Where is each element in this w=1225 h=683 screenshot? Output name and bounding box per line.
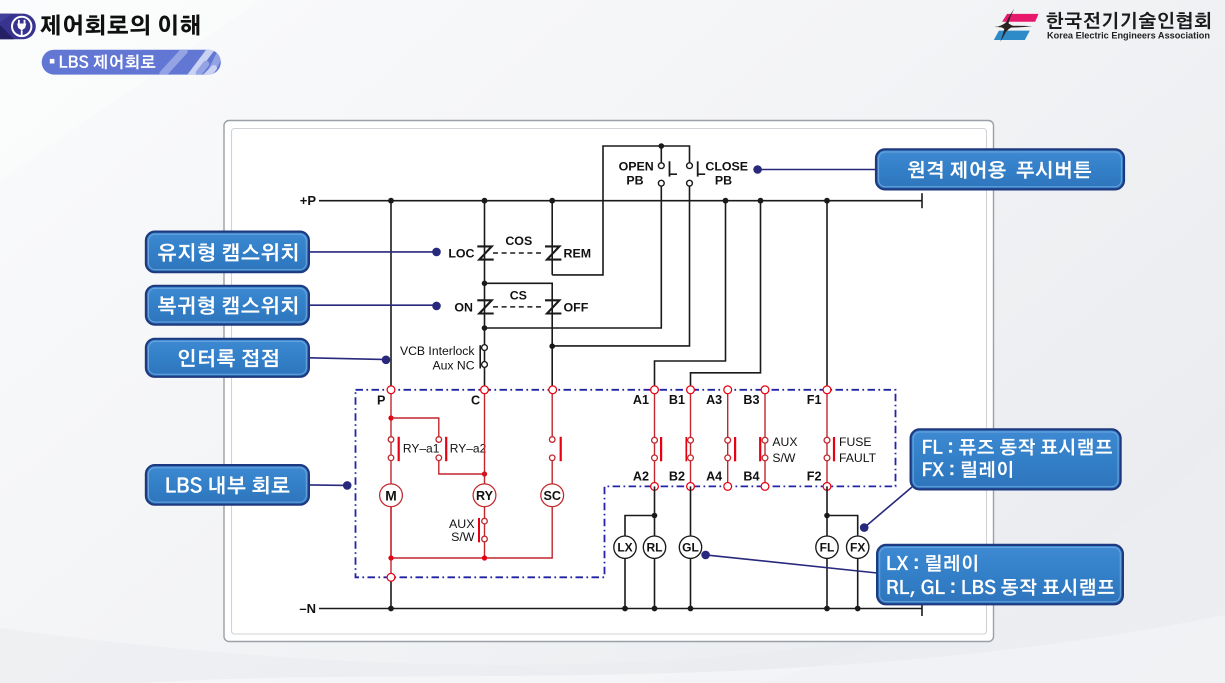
svg-text:S/W: S/W	[772, 451, 796, 465]
svg-text:+P: +P	[300, 193, 317, 208]
callout box: 원격 제어용 푸시버튼	[876, 149, 1124, 189]
wire: remote PB top bus	[552, 146, 689, 275]
junction: -N at RL	[652, 606, 658, 612]
junction: -N at FX	[855, 606, 861, 612]
svg-text:S/W: S/W	[451, 530, 475, 544]
cam switch CS ON contact	[477, 300, 493, 313]
wire: GL to -N	[690, 558, 692, 608]
wire: red bottom bus	[391, 507, 552, 558]
wire: A2 to lamps	[654, 486, 656, 535]
lamp FX	[847, 536, 869, 558]
svg-text:F1: F1	[807, 393, 822, 407]
svg-text:OFF: OFF	[564, 300, 589, 314]
plug icon	[12, 17, 31, 37]
callout line: LBS internal	[309, 484, 347, 487]
callout line: remote pushbutton	[758, 169, 876, 171]
callout box: 복귀형 캠스위치	[146, 286, 309, 325]
terminals on enclosure top edge	[387, 386, 831, 394]
svg-text:Aux NC: Aux NC	[433, 359, 475, 373]
contact B3-B4	[760, 390, 768, 487]
junction: -N at FL	[824, 606, 830, 612]
wire: SC column from +P to REM	[551, 201, 553, 275]
svg-text:FUSE: FUSE	[839, 435, 872, 449]
callout box: FL 퓨즈 FX 릴레이	[911, 429, 1121, 489]
COS link dashed	[493, 252, 544, 254]
callout node dot (FX)	[860, 523, 869, 532]
wire: FX to -N	[857, 558, 859, 608]
wire: F2 to FL	[826, 486, 828, 535]
svg-text:FAULT: FAULT	[839, 451, 877, 465]
svg-text:FL: FL	[820, 541, 835, 555]
contact VCB Interlock Aux NC	[480, 345, 487, 369]
lamp FL	[816, 536, 838, 558]
LBS enclosure dash-dot border	[356, 390, 896, 578]
callout box: LX 릴레이 RL GL 램프	[877, 545, 1123, 604]
svg-text:P: P	[377, 394, 385, 408]
junction: C column / OPEN PB	[482, 325, 488, 331]
svg-text:RL: RL	[647, 541, 663, 555]
svg-text:ON: ON	[454, 300, 473, 314]
junction: -N at LX	[622, 606, 628, 612]
callout line: momentary cam switch	[309, 304, 437, 306]
wire: CLOSE PB down to SC node	[552, 186, 689, 346]
junction: RY top	[482, 471, 487, 476]
lamp RL	[643, 536, 665, 558]
contact AUX S/W (motor limit)	[479, 518, 487, 542]
callout node dot (remote PB)	[753, 165, 762, 174]
callout line: LX RL GL	[706, 555, 878, 573]
wire: C column from +P down	[484, 201, 486, 390]
contact A1-A2	[652, 390, 662, 487]
svg-text:RY–a2: RY–a2	[450, 441, 487, 455]
callout box: 유지형 캠스위치	[146, 232, 309, 273]
pushbutton OPEN PB	[658, 161, 677, 186]
callout box: 인터록 접점	[146, 339, 309, 377]
terminals on enclosure bottom edge	[651, 483, 831, 491]
svg-text:M: M	[385, 488, 397, 503]
svg-text:SC: SC	[543, 489, 561, 503]
lamp LX	[614, 536, 636, 558]
subtitle pill: LBS 제어회로	[42, 49, 221, 86]
svg-text:Korea Electric Engineers Assoc: Korea Electric Engineers Association	[1047, 30, 1210, 40]
contact RY-a1	[388, 437, 399, 462]
wire: SC column red	[551, 390, 553, 437]
svg-text:LOC: LOC	[448, 247, 474, 261]
junction: RY-a2 branch from P column	[388, 415, 393, 420]
wire: +P rail	[319, 200, 922, 202]
wire: P column from +P to terminal P	[390, 201, 392, 390]
svg-text:REM: REM	[564, 247, 592, 261]
junction: -N at GL	[688, 606, 694, 612]
svg-text:–N: –N	[299, 601, 316, 616]
contact RY-a2	[436, 437, 446, 462]
wire: RY to AUX SW	[484, 507, 486, 558]
KEEA logo korean text	[1047, 12, 1210, 29]
svg-text:COS: COS	[505, 234, 532, 248]
junction: FX branch	[824, 513, 830, 519]
-N rail end tick	[921, 601, 923, 616]
svg-text:RY: RY	[476, 489, 494, 503]
svg-text:A3: A3	[706, 393, 722, 407]
contact SC aux	[549, 437, 560, 462]
wire: branch to FX	[827, 516, 858, 536]
+P rail end tick	[921, 193, 923, 208]
callout box: LBS 내부 회로	[146, 465, 309, 505]
junction: -N at P column	[388, 606, 394, 612]
contact A3-A4	[725, 390, 735, 487]
wire: P column red to border exit	[390, 558, 392, 577]
svg-text:B3: B3	[743, 393, 759, 407]
wire: -N rail	[319, 608, 922, 610]
cam switch COS REM contact	[545, 246, 561, 259]
svg-text:PB: PB	[626, 174, 643, 188]
wire: branch to LX	[625, 516, 655, 536]
relay coil RY	[473, 484, 496, 507]
svg-text:B1: B1	[669, 393, 685, 407]
callout line: maintained cam switch	[309, 251, 437, 253]
junction: LX branch	[652, 513, 658, 519]
diagram panel	[224, 121, 994, 642]
wire: +P to A1 terminal (jog)	[655, 201, 726, 390]
junction: C column CS branch	[482, 281, 488, 287]
callout node dot (COS)	[432, 248, 441, 257]
junction: OPEN PB top	[660, 146, 662, 163]
wire: RY-a2 down to RY coil	[439, 461, 485, 474]
callout line: FL/FX	[864, 487, 912, 528]
svg-text:LX: LX	[617, 541, 632, 555]
svg-text:GL: GL	[682, 541, 699, 555]
terminal on enclosure bottom-left edge	[387, 573, 395, 581]
callout line: interlock contact	[309, 358, 386, 360]
svg-text:A1: A1	[633, 393, 649, 407]
svg-text:A2: A2	[633, 470, 649, 484]
callout node dot (interlock)	[382, 356, 391, 365]
junction: AUX SW bottom	[482, 555, 487, 560]
callout node dot (LBS internal)	[343, 481, 352, 490]
callout node dot (GL)	[701, 551, 710, 560]
contact F1-F2 fuse fault	[824, 390, 834, 487]
svg-text:AUX: AUX	[772, 435, 797, 449]
junction: SC column / CLOSE PB	[549, 343, 555, 349]
cam switch CS OFF contact	[545, 300, 561, 313]
svg-text:CS: CS	[510, 289, 527, 303]
wire: OPEN PB down to CS node	[485, 186, 662, 328]
wire: RL to -N	[654, 558, 656, 608]
callout node dot (CS)	[432, 302, 441, 311]
cam switch COS LOC contact	[477, 246, 493, 259]
svg-text:CLOSE: CLOSE	[705, 159, 748, 173]
lamp GL	[679, 536, 701, 558]
svg-text:RY–a1: RY–a1	[403, 441, 440, 455]
wire: +P to F1 terminal	[826, 201, 828, 390]
wire: P column red (terminal P to M and bottom)	[390, 390, 392, 558]
motor M	[380, 484, 403, 507]
wire: +P to B1 terminal (jog)	[691, 201, 761, 390]
svg-text:VCB Interlock: VCB Interlock	[400, 344, 475, 358]
svg-text:OPEN: OPEN	[619, 159, 654, 173]
wire: C column red (terminal C to RY)	[484, 390, 486, 484]
coil SC	[541, 484, 564, 507]
KEEA logo mark	[994, 9, 1039, 42]
svg-text:B4: B4	[743, 470, 759, 484]
svg-text:PB: PB	[715, 174, 732, 188]
svg-text:C: C	[471, 394, 480, 408]
wire: exit to -N rail	[390, 577, 392, 608]
wire: LX to -N	[624, 558, 626, 608]
wire: B2 to GL	[690, 486, 692, 535]
wire: branch to RY-a2	[391, 418, 439, 437]
svg-text:B2: B2	[669, 470, 685, 484]
wire: CS branch to OFF	[485, 283, 553, 390]
junction: M bottom	[388, 555, 393, 560]
svg-text:AUX: AUX	[449, 517, 474, 531]
svg-text:F2: F2	[807, 470, 822, 484]
logo badge	[0, 14, 36, 40]
pushbutton CLOSE PB	[687, 161, 706, 186]
contact B1-B2	[686, 390, 693, 487]
svg-text:FX: FX	[850, 541, 865, 555]
title: 제어회로의 이해	[40, 15, 199, 36]
svg-text:A4: A4	[706, 470, 722, 484]
CS link dashed	[493, 306, 544, 308]
wire: FL to -N	[826, 558, 828, 608]
